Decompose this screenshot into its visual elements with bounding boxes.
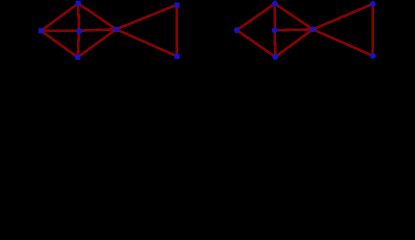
node L bbox=[38, 28, 43, 33]
wire C2-B2 bbox=[273, 30, 276, 57]
node C bbox=[77, 29, 82, 34]
node T bbox=[76, 1, 81, 6]
node Tt bbox=[174, 3, 179, 8]
wire L-B bbox=[41, 31, 78, 57]
right graph nodes (circles) bbox=[234, 1, 376, 60]
node R bbox=[114, 27, 119, 32]
wire C2-R2 bbox=[275, 28, 313, 31]
wire Tt-Tb bbox=[175, 5, 178, 56]
node B2 bbox=[272, 54, 278, 60]
wire C-R bbox=[79, 29, 116, 30]
left graph edges bbox=[41, 3, 177, 57]
node L2 bbox=[234, 27, 240, 33]
wire B-R bbox=[78, 29, 116, 57]
wire T2-C2 bbox=[273, 4, 276, 31]
wire R2-Tt2 bbox=[313, 4, 373, 30]
wire C-B bbox=[78, 31, 79, 58]
node C2 bbox=[272, 27, 278, 33]
node T2 bbox=[272, 1, 278, 7]
node B bbox=[75, 55, 80, 60]
wire T-R bbox=[78, 3, 116, 29]
wire R-Tb bbox=[116, 29, 177, 56]
wire T-C bbox=[77, 3, 80, 30]
node Tb bbox=[174, 54, 179, 59]
node R2 bbox=[310, 27, 316, 33]
wire B2-R2 bbox=[275, 29, 313, 57]
node Tb2 bbox=[370, 53, 376, 59]
wire T2-R2 bbox=[275, 4, 313, 30]
wire L2-B2 bbox=[237, 30, 275, 57]
wire Tt2-Tb2 bbox=[371, 4, 374, 56]
node Tt2 bbox=[370, 1, 376, 7]
wire L2-T2 bbox=[237, 4, 275, 31]
wire R2-Tb2 bbox=[313, 29, 373, 56]
left graph nodes (squares) bbox=[38, 1, 179, 60]
right graph edges bbox=[237, 4, 373, 57]
wire R-Tt bbox=[116, 5, 177, 30]
wire L-T bbox=[41, 3, 78, 30]
wire L-C bbox=[41, 29, 79, 32]
